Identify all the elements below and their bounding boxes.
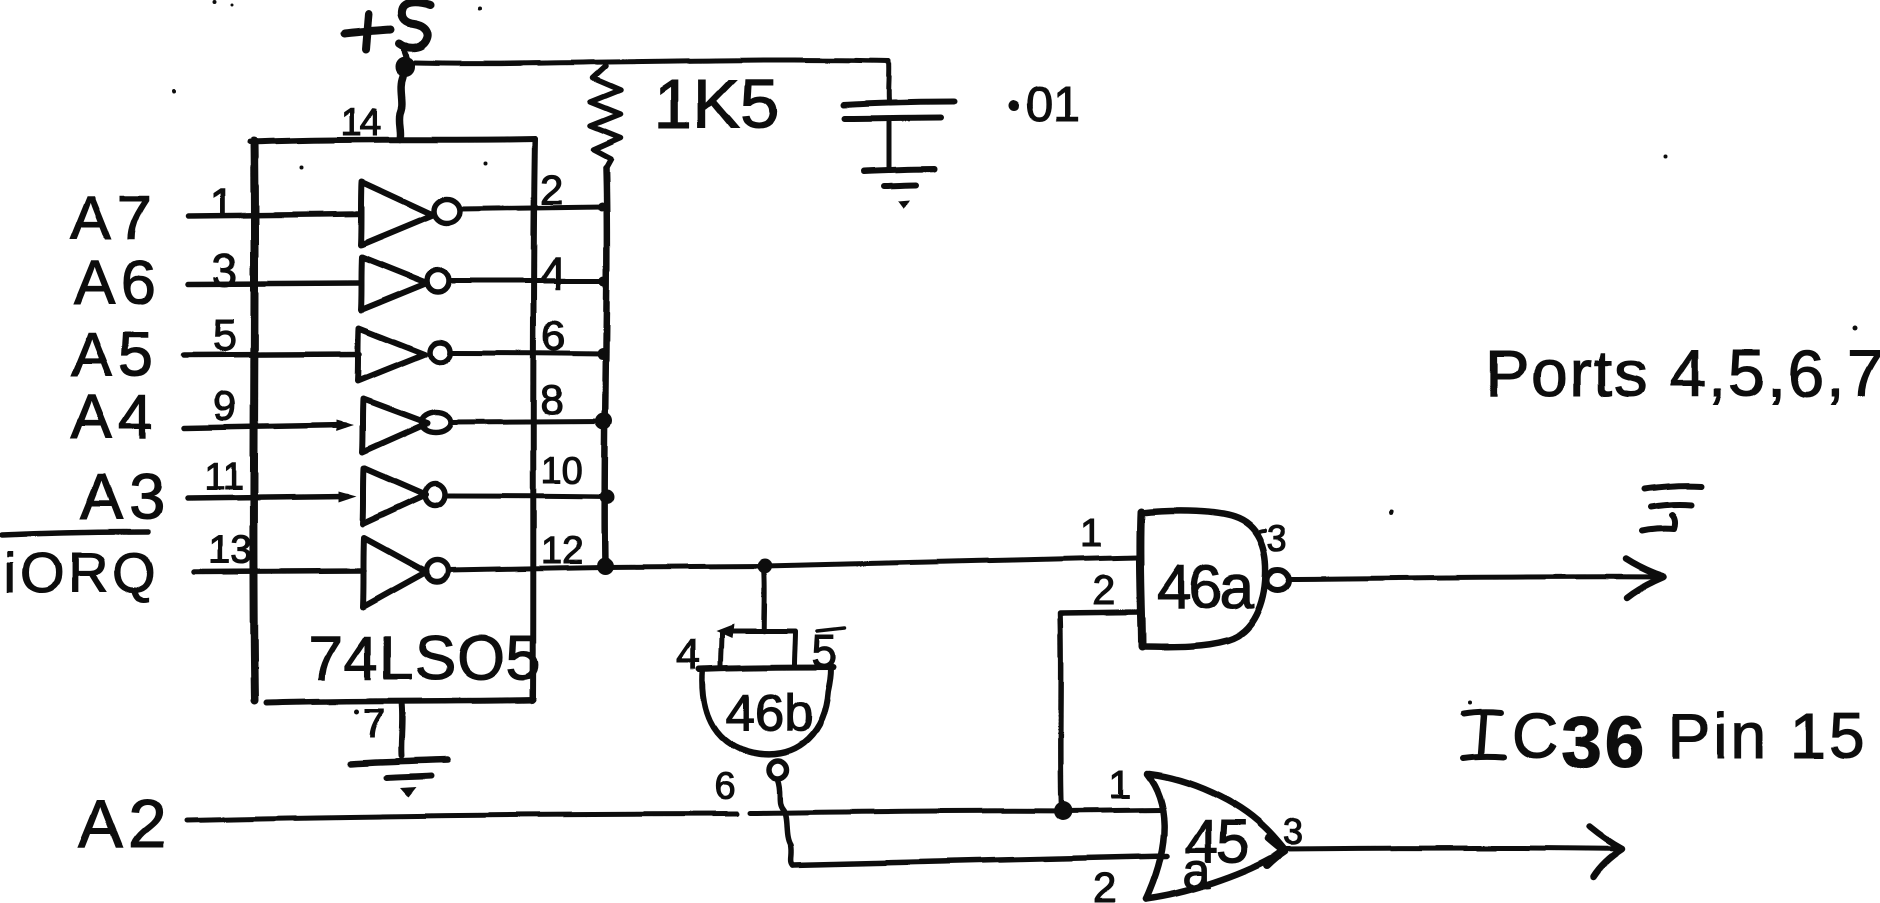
wire A6 to pin 3: [188, 283, 360, 284]
svg-text:3: 3: [1283, 811, 1303, 852]
junction pin 12 node: [597, 558, 614, 575]
junction pin 2 bus: [598, 203, 607, 212]
junction pin 10 bus: [600, 490, 615, 505]
wire A7 to pin 1: [188, 214, 360, 216]
svg-text:3: 3: [212, 244, 238, 296]
svg-text:3: 3: [1267, 518, 1287, 559]
IC U1 74LS05 box: [250, 139, 535, 703]
junction to gate 46b: [758, 559, 773, 574]
wire capacitor to ground: [887, 122, 892, 167]
inverter U1d: [362, 399, 451, 452]
wire 46a output arrow: [1290, 559, 1664, 598]
label IORQ with overline: [2, 532, 160, 604]
wire pin12 node to NAND 46a pin 1: [605, 557, 1138, 567]
junction A2 node: [1054, 802, 1073, 821]
wire IORQ to pin 13: [194, 571, 364, 572]
svg-text:C36 Pin 15: C36 Pin 15: [1512, 700, 1868, 783]
label IC36 Pin 15: [1463, 700, 1868, 783]
wire 46b output to OR pin 2: [793, 856, 1167, 865]
svg-text:14: 14: [341, 102, 381, 144]
junction dot +5 node: [395, 57, 415, 77]
svg-text:8: 8: [540, 376, 563, 423]
svg-text:iORQ: iORQ: [4, 541, 160, 604]
inverter U1f: [363, 538, 448, 607]
junction pin 6 bus: [597, 348, 609, 360]
label .01: [1009, 78, 1081, 132]
ground below capacitor: [864, 169, 934, 209]
svg-text:01: 01: [1026, 78, 1081, 132]
wire 45a output arrow: [1284, 827, 1622, 877]
svg-text:1: 1: [210, 179, 233, 226]
label 45a: [1183, 808, 1248, 899]
junction pin 8 bus: [596, 413, 613, 430]
inverter U1b: [361, 257, 449, 310]
svg-text:4: 4: [676, 630, 700, 679]
wire +5 stem to IC pin 14: [399, 77, 403, 139]
NAND gate 46b (vertical): [699, 624, 834, 779]
svg-text:46b: 46b: [726, 685, 813, 743]
svg-text:5: 5: [812, 625, 838, 677]
arrowhead on A3 wire: [339, 491, 357, 502]
wire A5 to pin 5: [183, 354, 360, 355]
svg-text:1: 1: [1080, 511, 1102, 555]
wire pin 12 to bus: [448, 567, 603, 570]
wire pin 8 to bus: [451, 421, 604, 422]
svg-text:9: 9: [213, 382, 236, 429]
capacitor C1 bottom plate: [844, 118, 941, 119]
junction pin 4 bus: [599, 276, 609, 286]
inverter U1e: [363, 468, 445, 524]
svg-text:5: 5: [212, 311, 236, 360]
wire corner down to capacitor: [886, 61, 892, 101]
wire A2 left segment: [186, 814, 737, 820]
svg-text:A3: A3: [80, 461, 170, 533]
svg-text:6: 6: [714, 766, 735, 808]
svg-text:4: 4: [540, 247, 566, 299]
wire A4 to pin 9: [184, 425, 345, 428]
svg-text:46a: 46a: [1157, 553, 1255, 622]
+5 supply symbol: [345, 2, 431, 63]
wire pin 2 to bus: [460, 207, 603, 209]
arrowhead on A4 wire: [336, 420, 354, 431]
svg-text:74LSO5: 74LSO5: [308, 624, 542, 693]
wire 46b output squiggle down: [778, 780, 793, 865]
svg-text:2: 2: [1093, 864, 1116, 903]
wire pin 6 to bus: [451, 353, 603, 354]
wire down to 46b inputs: [761, 571, 767, 631]
svg-text:A5: A5: [71, 321, 159, 390]
pin 7 label: [355, 702, 386, 746]
ground at IC pin 7: [351, 760, 448, 797]
svg-text:10: 10: [541, 450, 583, 492]
svg-text:1: 1: [1109, 763, 1131, 807]
svg-text:7: 7: [363, 702, 385, 746]
svg-text:A6: A6: [74, 249, 162, 318]
resistor 1K5 zigzag: [591, 66, 621, 168]
inverter U1c: [358, 328, 450, 381]
OR gate 45a: [1146, 774, 1285, 899]
svg-text:A4: A4: [71, 383, 159, 452]
inverter U1a: [361, 182, 460, 245]
svg-text:11: 11: [204, 456, 243, 498]
wire A2 right segment to OR pin 1: [750, 810, 1162, 813]
svg-text:Ports 4,5,6,7: Ports 4,5,6,7: [1485, 336, 1880, 410]
net mark above arrow: [1642, 486, 1701, 531]
pin 3 label: [1256, 518, 1287, 559]
pin 5 label with overline: [812, 625, 845, 677]
capacitor C1 top plate: [843, 102, 954, 105]
svg-text:A7: A7: [70, 184, 158, 253]
wire pin 10 to bus: [446, 496, 607, 497]
wire resistor bottom to pin12 node (vertical bus): [605, 168, 607, 566]
pin 7 stem: [398, 702, 405, 756]
wire +5 node to capacitor: [415, 60, 889, 64]
NAND gate 46a: [1140, 511, 1289, 647]
wire pin 4 to bus: [449, 279, 604, 284]
wire A2 node up to NAND pin 2: [1060, 612, 1139, 807]
svg-text:a: a: [1183, 843, 1211, 899]
svg-text:A2: A2: [78, 786, 171, 862]
svg-text:1K5: 1K5: [654, 65, 779, 143]
wire A3 to pin 11: [187, 496, 348, 498]
svg-text:2: 2: [1092, 566, 1115, 613]
svg-text:13: 13: [208, 528, 253, 572]
